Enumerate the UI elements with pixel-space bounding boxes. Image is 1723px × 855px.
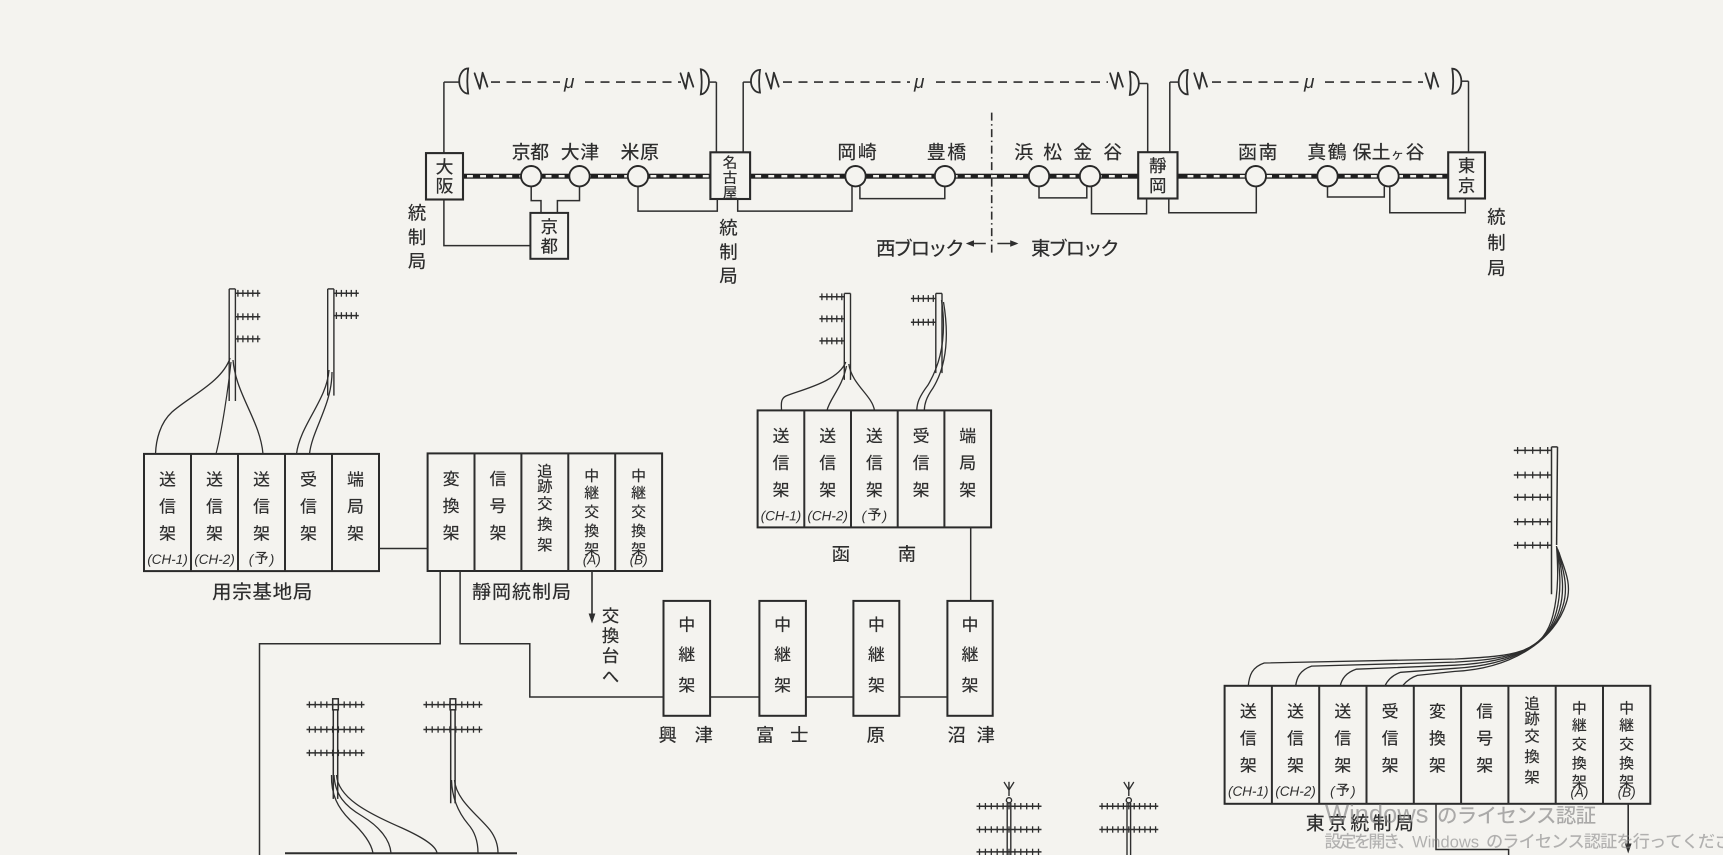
label CH-1 bbox=[148, 554, 187, 567]
feeder cable A9 #2 bbox=[1296, 548, 1560, 687]
wire 変換架 to bottom-left station bbox=[260, 571, 441, 855]
wire horn Tokyo down to box bbox=[1468, 81, 1470, 152]
label (B) bbox=[630, 555, 647, 568]
feeder cable A3 to 送信架(予) bbox=[849, 364, 875, 410]
arrow to switchboard 交換台へ bbox=[589, 571, 596, 624]
feeder cable A5 down 2 bbox=[337, 775, 438, 853]
antenna mast A3 (函南 TX) bbox=[819, 293, 850, 380]
antenna element A9 bbox=[1514, 472, 1552, 479]
station circle 真鶴 bbox=[1317, 166, 1337, 186]
label (A) bbox=[583, 555, 600, 568]
wire horn stub Tokyo bbox=[1461, 80, 1468, 82]
station box 靜岡 bbox=[1138, 152, 1177, 198]
dashed microwave link Shizuoka-Tokyo (west part) bbox=[1212, 81, 1300, 83]
wire 保土ヶ谷 to Tokyo box bbox=[1390, 186, 1466, 212]
wire horn stub Shizuoka east bbox=[1170, 81, 1179, 83]
equipment rack 函南 bbox=[758, 410, 992, 527]
station label 保土ヶ谷 part1 bbox=[1353, 143, 1390, 161]
wire horn Nagoya east down to box bbox=[742, 82, 744, 152]
feeder cable A2 to 受信架 2 bbox=[310, 372, 333, 454]
wire 岡崎 to 豊橋 bbox=[860, 186, 945, 198]
label 名古屋 bbox=[723, 155, 737, 199]
label 予 (spare) bbox=[868, 508, 881, 520]
station circle 函南 bbox=[1246, 166, 1266, 186]
feeder cable A9 #4 bbox=[1385, 551, 1566, 687]
wire 米原 to Nagoya box bbox=[638, 186, 717, 211]
label 予 (spare) bbox=[255, 552, 268, 564]
block divider (dash-dot) bbox=[991, 113, 993, 255]
radio wave break symbol bbox=[681, 73, 694, 89]
main trunk line (railway) bbox=[463, 174, 1448, 179]
repeater rack 中継架 沼津 bbox=[947, 601, 992, 716]
antenna mast A7 (bottom-middle) bbox=[977, 782, 1042, 855]
equipment rack 用宗基地局 (Mochimune base station) bbox=[144, 454, 379, 571]
antenna mast A1 (用宗 TX) bbox=[229, 289, 260, 401]
wire horn Shizuoka east down to box bbox=[1169, 82, 1171, 152]
label 統制局 (Nagoya) bbox=[720, 219, 738, 284]
wire Shizuoka box to 函南 bbox=[1169, 186, 1257, 212]
radio wave break symbol bbox=[1194, 73, 1207, 89]
repeater rack 中継架 原 bbox=[853, 601, 899, 716]
feeder cable A9 #1 bbox=[1248, 546, 1557, 687]
wire horn Osaka down to box bbox=[443, 82, 445, 153]
repeater rack 中継架 富士 bbox=[759, 601, 806, 716]
wire 金谷 to Shizuoka box bbox=[1092, 186, 1147, 213]
watermark line1 JP bbox=[1439, 806, 1596, 824]
label 東ブロック bbox=[1032, 239, 1118, 257]
wire 大津 circle to Kyoto box bbox=[557, 186, 579, 213]
wire 富士-原 bbox=[806, 696, 854, 698]
feeder cable A1 to 送信架(CH-2) bbox=[216, 362, 231, 454]
label 統制局 (Osaka) bbox=[408, 204, 426, 270]
dashed microwave link Shizuoka-Tokyo (east part) bbox=[1325, 81, 1423, 83]
wire Osaka box to Kyoto box bbox=[444, 200, 531, 246]
wire 原-沼津 bbox=[899, 696, 947, 698]
bottom rack top edge (cut off) bbox=[285, 852, 517, 854]
station box 名古屋 bbox=[710, 152, 750, 199]
label 沼津 1 bbox=[948, 726, 964, 743]
dashed microwave link Nagoya-Shizuoka (west part) bbox=[783, 81, 910, 83]
label mu link3 bbox=[1304, 78, 1315, 92]
label 用宗基地局 bbox=[213, 582, 311, 600]
feeder cable A1 to 送信架(予) bbox=[233, 360, 263, 454]
railway line white dashes bbox=[467, 175, 1442, 177]
station label 岡崎 bbox=[839, 143, 876, 161]
antenna horn Nagoya west (RX) bbox=[701, 69, 709, 94]
station label 豊橋 bbox=[928, 143, 966, 161]
station label 金谷 bbox=[1074, 143, 1122, 161]
feeder cable A6 down 1 bbox=[452, 780, 479, 853]
antenna mast A6 (bottom-left) bbox=[423, 699, 482, 804]
wire 京都 circle to Kyoto box bbox=[531, 186, 541, 213]
wire 真鶴 to 保土ヶ谷 bbox=[1328, 186, 1385, 197]
wire 興津-富士 bbox=[710, 696, 759, 698]
antenna mast A4 (函南 RX) bbox=[911, 293, 942, 373]
wire 浜松 to 金谷 bbox=[1039, 186, 1087, 198]
wire 中継交換架(B) down with arrow bbox=[1625, 804, 1632, 854]
feeder cable A5 down 3 bbox=[331, 775, 373, 853]
label 靜岡統制局 bbox=[473, 582, 570, 600]
station label 米原 bbox=[621, 143, 658, 161]
station circle 豊橋 bbox=[935, 166, 955, 186]
wire Nagoya box to 岡崎 bbox=[738, 186, 852, 211]
wire horn stub Shizuoka west bbox=[1139, 83, 1148, 85]
arrow east block bbox=[997, 240, 1018, 247]
station box 大阪 bbox=[426, 153, 463, 199]
label 原 bbox=[867, 727, 884, 743]
antenna element A9 bbox=[1514, 494, 1552, 501]
label 南 bbox=[899, 545, 915, 562]
station label 大津 bbox=[561, 143, 598, 161]
radio wave break symbol bbox=[475, 73, 488, 89]
equipment rack 東京統制局 (Tokyo control station) bbox=[1225, 686, 1651, 804]
wire horn stub Nagoya east bbox=[743, 81, 751, 83]
label 大阪 bbox=[436, 158, 453, 194]
antenna mast A9 (Tokyo control, tall) bbox=[1552, 447, 1558, 594]
feeder cable A3 to 送信架(CH-1) bbox=[781, 362, 845, 410]
feeder cable A2 to 受信架 bbox=[297, 370, 330, 454]
station circle 浜松 bbox=[1029, 166, 1049, 186]
Windows activation watermark line 2 bbox=[1325, 833, 1723, 849]
station circle 岡崎 bbox=[845, 166, 865, 186]
dashed microwave link Nagoya-Shizuoka (east part) bbox=[936, 81, 1108, 83]
label CH-2 bbox=[195, 554, 234, 567]
wire horn stub Osaka bbox=[444, 81, 459, 83]
label 東京 bbox=[1458, 157, 1474, 193]
label 沼津 2 bbox=[977, 726, 994, 743]
label 富士 2 bbox=[791, 726, 808, 742]
feeder cable A5 down 1 bbox=[334, 775, 391, 853]
station label ヶ bbox=[1393, 151, 1403, 160]
antenna mast A8 (bottom-middle) bbox=[1099, 782, 1158, 855]
label 興津 2 bbox=[695, 726, 712, 743]
feeder cable A1 to 送信架(CH-1) bbox=[156, 358, 231, 454]
station circle 大津 bbox=[569, 166, 589, 186]
feeder cable A4 to 受信架 bbox=[917, 300, 944, 410]
label 京都 box bbox=[541, 218, 558, 254]
feeder cable A9 #3 bbox=[1340, 549, 1562, 687]
repeater rack 中継架 興津 bbox=[664, 601, 711, 716]
station box 東京 bbox=[1448, 152, 1485, 198]
radio wave break symbol bbox=[766, 73, 779, 89]
wire rack1 to rack2 bbox=[379, 548, 428, 550]
label 興津 1 bbox=[659, 726, 676, 743]
equipment rack 靜岡統制局 (Shizuoka control station) bbox=[428, 453, 662, 571]
feeder cable A4 to 受信架 2 bbox=[924, 302, 946, 410]
label 富士 1 bbox=[757, 726, 773, 743]
wire horn stub Nagoya west bbox=[710, 81, 717, 83]
arrow west block bbox=[966, 240, 986, 247]
antenna mast A5 (bottom-left) bbox=[307, 699, 365, 799]
antenna horn Nagoya east (TX) bbox=[751, 70, 760, 93]
box 京都 (control) bbox=[530, 213, 568, 259]
station circle 米原 bbox=[628, 166, 648, 186]
wire horn Nagoya west down to box bbox=[715, 82, 717, 152]
station circle 京都 bbox=[521, 166, 541, 186]
wire 端局架(函南) to 沼津 bbox=[970, 527, 972, 601]
label 統制局 (Tokyo) bbox=[1488, 208, 1506, 276]
feeder cable A6 down 2 bbox=[455, 780, 499, 853]
label 靜岡 bbox=[1150, 157, 1166, 193]
antenna element A9 bbox=[1514, 542, 1552, 549]
label 予 (spare) bbox=[1337, 784, 1350, 796]
antenna element A9 bbox=[1514, 447, 1552, 454]
label 西ブロック bbox=[877, 239, 962, 257]
station label 真鶴 bbox=[1308, 143, 1346, 161]
station circle 金谷 bbox=[1080, 166, 1100, 186]
wire 変換架 to 興津 bbox=[460, 571, 663, 697]
wire horn Shizuoka west down to box bbox=[1147, 84, 1149, 153]
radio wave break symbol bbox=[1110, 73, 1123, 89]
label mu link2 bbox=[914, 78, 925, 92]
feeder cable A3 to 送信架(CH-2) bbox=[827, 366, 847, 410]
wire 変換架(東京) down bbox=[1436, 804, 1509, 855]
label mu (microwave) link1 bbox=[564, 78, 575, 92]
label 交換台へ bbox=[602, 607, 618, 682]
dashed microwave link Osaka-Nagoya (west part) bbox=[491, 81, 560, 83]
label 函 bbox=[833, 546, 849, 562]
antenna mast A2 (用宗 RX) bbox=[328, 289, 359, 396]
feeder cable A9 #5 bbox=[1401, 552, 1568, 687]
station circle 保土ヶ谷 bbox=[1378, 166, 1398, 186]
label 東京統制局 bbox=[1306, 814, 1412, 832]
antenna element A9 bbox=[1514, 518, 1552, 525]
station label 京都 bbox=[512, 143, 548, 161]
antenna horn Shizuoka west (RX) bbox=[1130, 72, 1139, 95]
radio wave break symbol bbox=[1426, 73, 1439, 89]
antenna horn Osaka (TX east) bbox=[459, 68, 468, 93]
station label 浜松 bbox=[1015, 143, 1062, 161]
antenna horn Tokyo (RX) bbox=[1452, 69, 1461, 94]
station label 函南 bbox=[1239, 143, 1276, 161]
dashed microwave link Osaka-Nagoya (east part) bbox=[585, 81, 681, 83]
Windows activation watermark line 1 bbox=[1325, 804, 1427, 823]
station label 谷 bbox=[1406, 143, 1424, 160]
antenna horn Shizuoka east (TX) bbox=[1179, 70, 1188, 95]
